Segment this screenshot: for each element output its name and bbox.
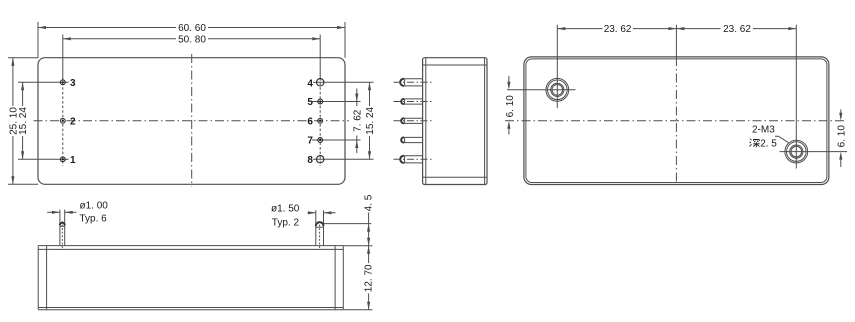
svg-text:6: 6 xyxy=(307,116,313,127)
svg-text:12. 70: 12. 70 xyxy=(364,264,375,292)
dimension Dia 1.00 xyxy=(47,211,60,213)
dimension 6.10 right xyxy=(840,110,842,116)
dimension 23.62 left xyxy=(557,28,602,30)
svg-text:2. 5: 2. 5 xyxy=(760,138,777,149)
front pin right xyxy=(316,222,324,246)
svg-text:23. 62: 23. 62 xyxy=(604,24,632,35)
pin 7 xyxy=(318,138,323,143)
vertical centerline xyxy=(191,54,193,187)
mounting hole 1 xyxy=(546,78,569,101)
svg-text:6. 10: 6. 10 xyxy=(505,95,516,118)
svg-text:Typ. 6: Typ. 6 xyxy=(80,213,108,224)
node pin1 row line xyxy=(18,158,69,160)
svg-text:23. 62: 23. 62 xyxy=(723,24,751,35)
pin 8 xyxy=(317,156,324,163)
side pin row4 xyxy=(401,137,422,142)
dimension Dia 1.50 xyxy=(308,212,316,214)
pin 2 xyxy=(60,118,65,123)
glyph shen (depth) hand drawn xyxy=(750,139,760,148)
module body outline top view xyxy=(38,58,345,185)
svg-text:7. 62: 7. 62 xyxy=(352,109,363,132)
side pin row3 xyxy=(401,118,422,123)
svg-text:60. 60: 60. 60 xyxy=(178,23,206,34)
pin 4 xyxy=(317,79,324,86)
svg-text:6. 10: 6. 10 xyxy=(836,125,847,148)
pin 6 xyxy=(318,118,323,123)
dimension 7.62 xyxy=(356,89,358,102)
svg-text:7: 7 xyxy=(307,136,313,147)
node pin5 row line xyxy=(312,101,361,103)
svg-text:15. 24: 15. 24 xyxy=(18,107,29,135)
wire: right pin column extension up to 50.80 dim xyxy=(319,35,321,80)
module body front view xyxy=(38,246,343,310)
svg-text:ø1. 00: ø1. 00 xyxy=(80,201,109,212)
wire: left pin column dashed line xyxy=(62,78,64,166)
wire: right pin column dashed line xyxy=(319,78,321,166)
svg-text:5: 5 xyxy=(307,97,313,108)
horizontal centerline xyxy=(505,120,847,122)
side pin row5 xyxy=(400,156,422,163)
mounting hole 2 xyxy=(785,140,808,163)
dimension 25.10 xyxy=(8,57,38,59)
dimension 6.10 left xyxy=(508,76,510,84)
svg-text:4. 5: 4. 5 xyxy=(363,194,374,211)
pin 5 xyxy=(318,99,323,104)
front pin left xyxy=(60,223,65,246)
node pin7 row line xyxy=(312,139,361,141)
svg-text:2-M3: 2-M3 xyxy=(752,125,775,136)
dimension 4.5 xyxy=(324,223,372,225)
dimension 12.70 xyxy=(343,309,372,311)
node pin3 row line xyxy=(18,81,69,83)
pin 1 xyxy=(60,157,65,162)
side pin row2 xyxy=(401,99,422,104)
svg-text:50. 80: 50. 80 xyxy=(178,34,206,45)
node pin4 row line xyxy=(313,81,374,83)
svg-text:1: 1 xyxy=(70,155,76,166)
svg-text:3: 3 xyxy=(70,78,76,89)
leader for 2-M3 xyxy=(775,136,788,142)
module body bottom view xyxy=(524,57,829,185)
dimension 15.24 right xyxy=(369,82,371,106)
vertical centerline xyxy=(675,25,677,57)
dimension 60.60 xyxy=(37,22,39,58)
node pin8 row line xyxy=(313,158,374,160)
wire: left pin column extension up to 50.80 dim xyxy=(62,35,64,81)
svg-text:8: 8 xyxy=(307,155,313,166)
svg-text:2: 2 xyxy=(70,116,76,127)
module body side view xyxy=(423,58,487,185)
dimension 15.24 left xyxy=(22,82,24,106)
svg-text:4: 4 xyxy=(307,79,313,90)
svg-text:15. 24: 15. 24 xyxy=(365,106,376,134)
dimension 23.62 right xyxy=(676,28,720,30)
horizontal centerline xyxy=(34,120,349,122)
pin 3 xyxy=(60,80,65,85)
svg-text:ø1. 50: ø1. 50 xyxy=(271,203,300,214)
dimension 50.80 xyxy=(63,38,176,40)
svg-text:Typ. 2: Typ. 2 xyxy=(272,218,300,229)
side pin row1 xyxy=(400,79,422,86)
